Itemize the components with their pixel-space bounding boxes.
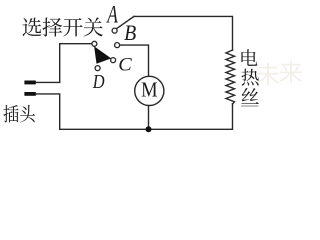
svg-text:B: B — [124, 20, 136, 45]
svg-text:A: A — [106, 0, 119, 28]
svg-text:M: M — [141, 78, 158, 102]
svg-text:D: D — [92, 70, 105, 92]
svg-text:C: C — [118, 55, 132, 75]
